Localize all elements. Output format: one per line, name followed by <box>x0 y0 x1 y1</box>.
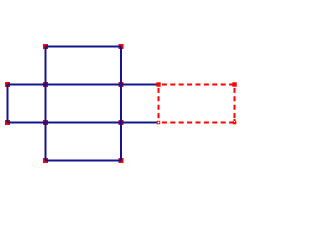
wire dashed top edge <box>159 84 235 86</box>
node C: left-top of left face <box>5 82 10 87</box>
wire bottom edge of bottom flap <box>46 160 122 162</box>
node L: dashed top-right <box>232 82 236 86</box>
node N: open corner x=234.5 y=122.5 (dashes overlap its rim) <box>233 119 237 124</box>
node J: bottom-right of bottom flap <box>119 158 124 163</box>
wire left vertical through net at x=45.5 <box>45 47 47 161</box>
node A: top-left of top flap <box>43 44 48 49</box>
dashed missing-face rectangle <box>159 85 235 123</box>
wire dashed right edge <box>234 85 236 123</box>
box net diagram <box>0 0 245 200</box>
node M: open corner x=158.5 y=122.5 <box>157 121 160 124</box>
node D: junction x=45.5 y=84.5 <box>43 82 48 87</box>
wire top edge of top flap <box>46 46 122 48</box>
wire left edge of left face <box>7 85 9 123</box>
node I: bottom-left of bottom flap <box>43 158 48 163</box>
wire dashed bottom edge <box>159 122 235 124</box>
wire middle band bottom edge <box>8 122 159 124</box>
wire dashed left edge <box>158 85 160 123</box>
vertex markers of the solid net (drawn beneath the edges) <box>5 44 124 163</box>
node E: junction x=121 y=84.5 <box>119 82 124 87</box>
node K: fold corner x=158.5 y=84.5 <box>156 82 160 86</box>
wire middle band top edge <box>8 84 159 86</box>
wire right vertical through net at x=121 <box>120 47 122 161</box>
solid edges of the net <box>8 47 159 161</box>
node G: junction x=45.5 y=122.5 <box>43 120 48 125</box>
node F: left-bottom of left face <box>5 120 10 125</box>
vertex markers of the dashed face (drawn on top) <box>156 82 236 86</box>
node H: junction x=121 y=122.5 <box>119 120 124 125</box>
node B: top-right of top flap <box>119 44 124 49</box>
